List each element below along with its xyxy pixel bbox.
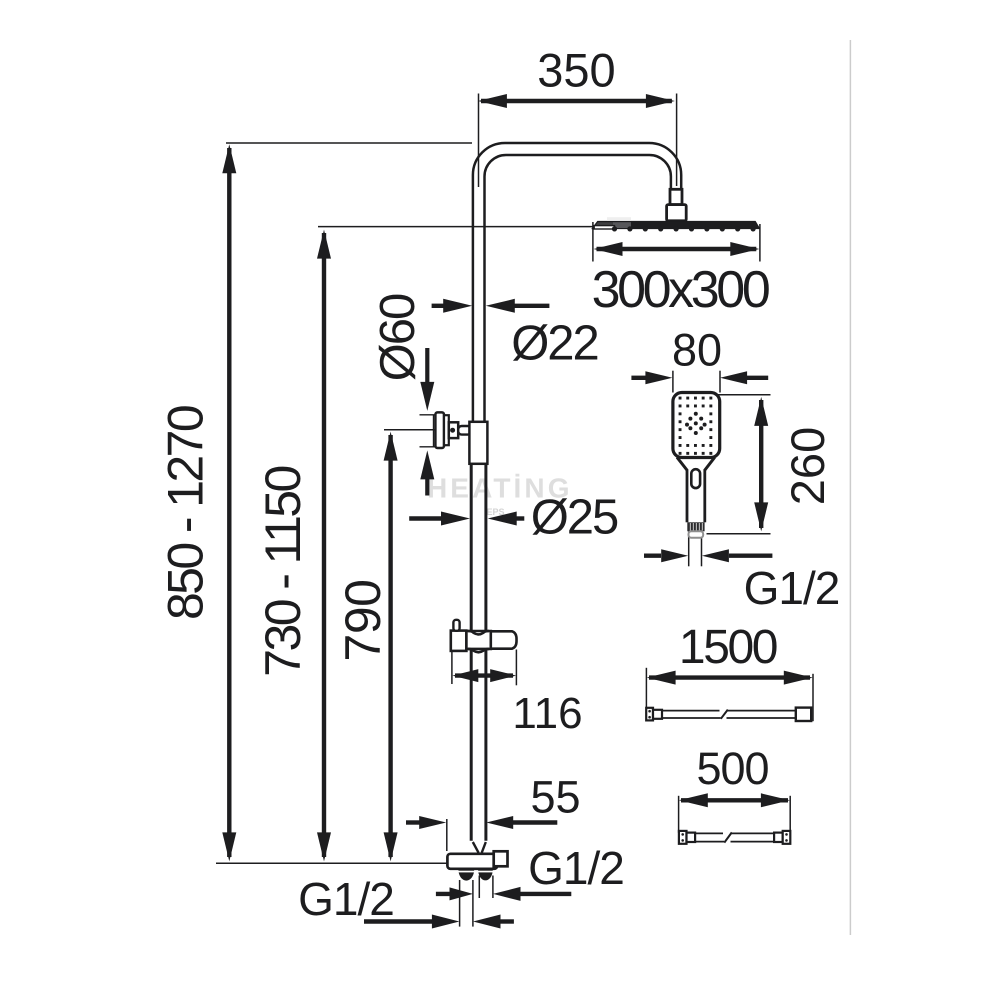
holder top dip over rail bbox=[468, 631, 489, 634]
extension lines G1/2 bottom right pair bbox=[478, 876, 480, 899]
extension line 300x300 right bbox=[759, 224, 761, 262]
dim 116 arrow bbox=[455, 673, 513, 677]
extension lines 1500 bbox=[645, 668, 647, 721]
dim 260 arrow bbox=[759, 400, 763, 528]
clamp stub arm bbox=[458, 426, 471, 435]
shower head plate 300x300 bbox=[592, 221, 759, 228]
extension lines 260 bbox=[717, 394, 771, 396]
handle slot bbox=[691, 469, 700, 488]
wall flange O60 bbox=[435, 412, 444, 448]
svg-text:Ø60: Ø60 bbox=[371, 294, 425, 381]
holder knob bbox=[453, 620, 459, 631]
dim O60 arrows bbox=[425, 348, 429, 386]
hose 500 body bbox=[695, 832, 723, 834]
extension line 55 bbox=[446, 819, 448, 851]
svg-text:1500: 1500 bbox=[679, 621, 777, 674]
extension line 350 right bbox=[676, 94, 678, 187]
dim 80 arrows bbox=[631, 376, 646, 380]
dim 500 arrow bbox=[681, 798, 788, 802]
extension lines 116 bbox=[451, 652, 453, 684]
head connector upper bbox=[670, 189, 682, 204]
shower arm tube inner wall bbox=[485, 155, 671, 422]
extension line 850-1270 top bbox=[226, 142, 472, 144]
bracket clamp block bbox=[449, 422, 458, 438]
handle knurled ring bbox=[687, 522, 704, 531]
svg-text:500: 500 bbox=[696, 743, 768, 794]
dim 850-1270 arrow bbox=[227, 148, 231, 857]
svg-text:55: 55 bbox=[530, 772, 580, 823]
extension line 350 left bbox=[478, 94, 480, 188]
label 850 - 1270 rotated bbox=[158, 406, 214, 620]
handle bottom nub bbox=[689, 531, 704, 537]
hose 1500 break mark bbox=[721, 710, 728, 719]
dim 1500 arrow bbox=[649, 675, 810, 679]
shower arm tube outer wall bbox=[473, 143, 681, 422]
hose 1500 left nut bbox=[646, 708, 653, 721]
extension lines G1/2 bottom left pair bbox=[459, 880, 461, 927]
svg-text:G1/2: G1/2 bbox=[744, 562, 840, 614]
svg-text:790: 790 bbox=[335, 580, 391, 662]
dim O22 arrows bbox=[432, 304, 447, 308]
handshower neck taper bbox=[677, 457, 715, 470]
label 260 rotated bbox=[781, 427, 834, 505]
valve right dome connection bbox=[478, 870, 493, 881]
svg-text:350: 350 bbox=[537, 43, 615, 96]
mixer valve body bbox=[447, 854, 497, 869]
baseline bottom reference bbox=[216, 862, 447, 864]
rail sleeve joint bbox=[469, 422, 487, 464]
faint page edge line bbox=[849, 40, 851, 935]
hose 1500 body bbox=[662, 710, 720, 712]
dim 730-1150 arrow bbox=[322, 233, 326, 857]
hose 500 left nut bbox=[679, 831, 687, 844]
handshower face square nozzles bbox=[679, 397, 713, 455]
handshower center spray cluster bbox=[685, 412, 707, 435]
svg-text:260: 260 bbox=[781, 427, 834, 505]
handset holder on rail bbox=[451, 631, 467, 651]
dim G1/2 right row arrows bbox=[436, 892, 452, 896]
extension line 300x300 left bbox=[592, 222, 594, 262]
valve right outlet square bbox=[494, 851, 508, 866]
svg-text:730 - 1150: 730 - 1150 bbox=[255, 467, 311, 677]
hose 1500 left collar bbox=[653, 710, 662, 719]
dim 55 arrows bbox=[406, 820, 422, 824]
label 730 - 1150 rotated bbox=[255, 467, 311, 677]
plate left white notch bbox=[594, 226, 614, 229]
plate gray patch left bbox=[594, 222, 614, 228]
shower head nozzles bbox=[612, 226, 756, 231]
extension line 790 top bbox=[384, 429, 436, 431]
svg-text:300x300: 300x300 bbox=[592, 261, 769, 319]
hose 500 break mark bbox=[724, 832, 732, 842]
hose 500 right collar bbox=[774, 833, 783, 842]
svg-text:850 - 1270: 850 - 1270 bbox=[158, 406, 214, 620]
dim 300x300 arrow bbox=[597, 247, 757, 251]
svg-text:Ø25: Ø25 bbox=[531, 491, 618, 545]
extension lines G1/2 handshower bbox=[688, 532, 690, 567]
label 790 rotated bbox=[335, 580, 391, 662]
extension lines flange O60 bbox=[420, 414, 436, 416]
dim 790 arrow bbox=[388, 435, 392, 857]
hose 1500 right fitting bbox=[796, 708, 811, 721]
handshower handle bbox=[686, 470, 689, 523]
svg-text:G1/2: G1/2 bbox=[528, 842, 624, 894]
svg-text:Ø22: Ø22 bbox=[511, 317, 598, 371]
riser rail lower O25 bbox=[470, 464, 473, 841]
flange lip bbox=[444, 415, 449, 445]
head connector lower nub bbox=[667, 205, 687, 221]
label O60 rotated bbox=[371, 294, 425, 381]
valve left dome connection bbox=[458, 870, 474, 881]
hose 500 left collar bbox=[687, 833, 696, 842]
svg-text:116: 116 bbox=[512, 689, 582, 738]
svg-text:80: 80 bbox=[672, 325, 722, 376]
extension line shower head level bbox=[318, 226, 593, 228]
hose 500 right nut bbox=[783, 831, 791, 844]
dim 350 arrow bbox=[481, 99, 672, 103]
extension lines 500 bbox=[678, 796, 680, 833]
extension lines 80 bbox=[672, 371, 674, 393]
dim O25 arrows bbox=[409, 516, 445, 520]
dim G1/2 handshower arrows bbox=[644, 554, 661, 558]
faint band above plate bbox=[607, 217, 631, 221]
riser bottom taper bbox=[473, 842, 486, 853]
handshower head bbox=[673, 393, 720, 458]
svg-text:G1/2: G1/2 bbox=[298, 873, 394, 925]
dim G1/2 left row arrows bbox=[364, 919, 433, 923]
clamp screw dot bbox=[450, 428, 455, 433]
